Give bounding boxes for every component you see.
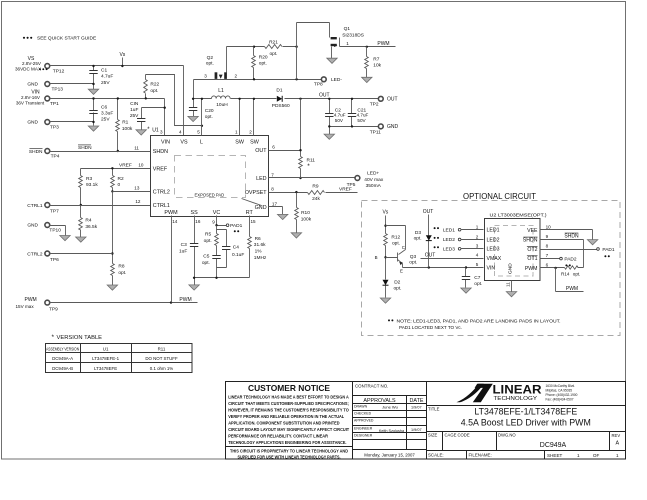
svg-text:14: 14 [172, 219, 178, 224]
svg-text:OVPSET: OVPSET [245, 190, 268, 196]
svg-text:opt.: opt. [150, 88, 158, 94]
svg-text:R2: R2 [118, 176, 124, 182]
svg-text:SHDN: SHDN [523, 238, 538, 244]
svg-text:D2: D2 [394, 279, 400, 285]
svg-text:R6: R6 [255, 236, 261, 242]
svg-text:PAD1: PAD1 [602, 247, 615, 253]
svg-text:opt.: opt. [204, 238, 212, 244]
svg-text:Q1: Q1 [344, 26, 351, 32]
svg-text:VERIFY PROPER AND RELIABLE OPE: VERIFY PROPER AND RELIABLE OPERATION IN … [228, 414, 344, 419]
svg-text:L: L [200, 140, 203, 146]
svg-text:VIN: VIN [161, 140, 170, 146]
svg-text:FILENAME:: FILENAME: [469, 453, 492, 458]
svg-text:Vs: Vs [382, 210, 388, 216]
svg-text:LINEAR: LINEAR [493, 385, 543, 397]
svg-text:TP7: TP7 [50, 209, 59, 215]
svg-text:50V: 50V [335, 118, 344, 123]
svg-text:TP6: TP6 [50, 257, 59, 263]
svg-text:DESIGNER: DESIGNER [354, 434, 373, 438]
svg-text:opt.: opt. [206, 61, 214, 67]
svg-text:C20: C20 [205, 108, 214, 114]
svg-text:C7: C7 [474, 275, 480, 281]
svg-text:VREF: VREF [119, 162, 132, 168]
svg-text:LT3478EFE-1: LT3478EFE-1 [92, 356, 120, 361]
svg-text:LT3478EFE-1/LT3478EFE: LT3478EFE-1/LT3478EFE [474, 407, 577, 417]
svg-text:PWM: PWM [164, 210, 178, 216]
svg-text:6: 6 [272, 144, 275, 149]
svg-text:1: 1 [235, 129, 238, 134]
svg-text:D1: D1 [276, 88, 282, 94]
svg-text:1: 1 [577, 453, 580, 458]
svg-text:1630 McCarthy Blvd.: 1630 McCarthy Blvd. [546, 384, 576, 388]
svg-text:36.5k: 36.5k [85, 224, 97, 230]
svg-text:OT2: OT2 [527, 247, 537, 253]
svg-text:7: 7 [271, 172, 274, 177]
svg-text:TP10: TP10 [49, 227, 61, 233]
svg-text:PAD1: PAD1 [230, 223, 243, 229]
svg-text:APPLICATION. COMPONENT SUBSTI: APPLICATION. COMPONENT SUBSTITUTION AND … [228, 421, 339, 426]
svg-text:L1: L1 [218, 88, 224, 94]
svg-text:R20: R20 [259, 54, 268, 60]
svg-text:CTRL1: CTRL1 [153, 203, 170, 209]
svg-text:SEE QUICK START GUIDE: SEE QUICK START GUIDE [37, 36, 96, 42]
svg-text:7: 7 [546, 253, 549, 258]
svg-text:DATE: DATE [410, 398, 424, 404]
svg-text:ENGINEER: ENGINEER [354, 427, 373, 431]
svg-text:31.6k: 31.6k [254, 242, 266, 248]
svg-text:1uF: 1uF [179, 248, 187, 254]
svg-text:TP12: TP12 [53, 69, 65, 75]
svg-text:CTRL2: CTRL2 [153, 190, 170, 196]
svg-text:D3: D3 [415, 230, 421, 236]
svg-text:2: 2 [235, 74, 238, 79]
svg-text:OT1: OT1 [527, 256, 537, 262]
svg-text:opt.: opt. [409, 260, 417, 266]
svg-text:OF: OF [593, 453, 600, 458]
svg-text:TP4: TP4 [51, 154, 60, 160]
svg-text:50V: 50V [357, 118, 366, 123]
svg-text:SUPPLIED FOR USE WITH LINEAR T: SUPPLIED FOR USE WITH LINEAR TECHNOLOGY … [238, 454, 341, 459]
svg-text:9: 9 [212, 220, 215, 225]
svg-text:SHDN: SHDN [29, 149, 43, 155]
svg-text:25V: 25V [101, 80, 110, 86]
svg-text:Q3: Q3 [410, 254, 417, 260]
svg-text:LED1: LED1 [487, 228, 500, 234]
svg-text:PDS560: PDS560 [272, 103, 290, 109]
svg-text:1: 1 [476, 225, 479, 230]
svg-text:LED3: LED3 [443, 246, 455, 252]
svg-text:opt.: opt. [394, 285, 402, 291]
svg-text:APPROVED: APPROVED [354, 419, 374, 423]
svg-text:OUT: OUT [255, 148, 267, 154]
svg-text:VEE: VEE [527, 228, 538, 234]
svg-text:DC949A: DC949A [540, 442, 567, 449]
svg-text:13: 13 [134, 186, 140, 191]
svg-text:PWM: PWM [179, 297, 191, 303]
svg-text:40V max: 40V max [364, 177, 384, 183]
svg-text:PWM: PWM [377, 41, 389, 47]
svg-text:11: 11 [506, 282, 511, 287]
svg-text:TECHNOLOGY APPLICATIONS ENGINE: TECHNOLOGY APPLICATIONS ENGINEERING FOR … [228, 440, 346, 445]
svg-text:C6: C6 [101, 104, 107, 110]
svg-text:Q2: Q2 [207, 55, 214, 61]
svg-text:GND: GND [27, 82, 38, 88]
svg-text:THIS CIRCUIT IS PROPRIETARY TO: THIS CIRCUIT IS PROPRIETARY TO LINEAR TE… [230, 449, 348, 454]
svg-text:TP3: TP3 [50, 125, 59, 131]
svg-text:Fax: (408)434-0507: Fax: (408)434-0507 [546, 397, 574, 401]
svg-text:R4: R4 [85, 218, 91, 224]
svg-text:TP9: TP9 [49, 306, 58, 312]
svg-text:GND: GND [508, 263, 514, 274]
svg-text:DRAWN: DRAWN [354, 404, 368, 408]
svg-text:R22: R22 [150, 82, 159, 88]
svg-text:LED3: LED3 [487, 247, 500, 253]
svg-text:1: 1 [346, 41, 349, 46]
svg-text:SHDN: SHDN [564, 233, 579, 239]
svg-text:HOWEVER, IT REMAINS THE CUSTOM: HOWEVER, IT REMAINS THE CUSTOMER'S RESPO… [228, 407, 349, 412]
svg-text:C5: C5 [203, 254, 209, 260]
svg-text:1%: 1% [255, 249, 263, 255]
svg-text:SIZE: SIZE [428, 432, 438, 437]
svg-text:VREF: VREF [153, 166, 168, 172]
svg-text:DWG.NO: DWG.NO [498, 432, 516, 437]
svg-text:TP13: TP13 [52, 87, 64, 93]
svg-text:15: 15 [251, 219, 257, 224]
svg-text:25V: 25V [130, 113, 139, 119]
svg-text:R11: R11 [158, 346, 166, 351]
svg-text:PWM: PWM [566, 286, 578, 292]
svg-text:93.1k: 93.1k [86, 182, 98, 188]
svg-text:PAD1 LOCATED NEXT TO Vc.: PAD1 LOCATED NEXT TO Vc. [399, 325, 462, 331]
svg-text:10k: 10k [373, 63, 381, 69]
svg-text:CTRL1: CTRL1 [27, 203, 43, 209]
svg-text:1/9/07: 1/9/07 [411, 428, 422, 432]
svg-text:SHDN: SHDN [153, 149, 168, 155]
svg-text:RT: RT [246, 210, 254, 216]
svg-text:REV: REV [612, 433, 621, 438]
svg-text:LED-: LED- [331, 77, 342, 83]
svg-text:VC: VC [213, 210, 221, 216]
svg-text:LED2: LED2 [487, 237, 500, 243]
svg-text:R5: R5 [205, 232, 211, 238]
svg-text:GND: GND [255, 205, 267, 211]
svg-text:25V: 25V [101, 117, 110, 123]
svg-text:VMAX: VMAX [487, 256, 502, 262]
svg-text:1: 1 [616, 453, 619, 458]
svg-text:1uF: 1uF [130, 107, 138, 113]
svg-text:OUT: OUT [423, 209, 434, 215]
svg-text:June Wu: June Wu [382, 405, 398, 410]
svg-text:10uH: 10uH [216, 102, 228, 108]
svg-text:4.7uF: 4.7uF [357, 113, 369, 118]
svg-text:5: 5 [197, 129, 200, 134]
svg-text:8: 8 [271, 186, 274, 191]
svg-text:1MHz: 1MHz [254, 255, 267, 261]
svg-text:U1: U1 [103, 346, 109, 351]
svg-text:E: E [400, 269, 403, 274]
svg-text:2.8V-25V: 2.8V-25V [22, 61, 42, 66]
svg-text:SHEET: SHEET [547, 453, 563, 458]
svg-text:TP8: TP8 [314, 81, 323, 87]
svg-text:GND: GND [27, 223, 38, 229]
svg-text:4: 4 [179, 129, 182, 134]
svg-text:Milpitas, CA 95035: Milpitas, CA 95035 [546, 388, 573, 392]
svg-text:SS: SS [190, 210, 198, 216]
svg-text:24k: 24k [312, 196, 320, 202]
svg-text:DO NOT STUFF: DO NOT STUFF [145, 356, 178, 361]
svg-text:2: 2 [476, 234, 479, 239]
svg-text:1/9/07: 1/9/07 [411, 406, 422, 410]
svg-text:VERSION TABLE: VERSION TABLE [57, 335, 103, 341]
svg-text:3.3uF: 3.3uF [101, 111, 113, 117]
svg-text:OUT: OUT [319, 93, 330, 99]
svg-text:R14: R14 [561, 271, 570, 276]
svg-text:0: 0 [118, 182, 121, 188]
svg-text:LED2: LED2 [443, 237, 455, 243]
svg-text:CIN: CIN [130, 101, 139, 107]
svg-text:SCALE:: SCALE: [428, 453, 444, 458]
svg-text:CIRCUIT BOARD LAYOUT MAY SIGNI: CIRCUIT BOARD LAYOUT MAY SIGNIFICANTLY A… [228, 427, 349, 432]
svg-text:SW: SW [250, 140, 260, 146]
svg-text:PWM: PWM [25, 297, 37, 303]
svg-text:LINEAR TECHNOLOGY HAS MADE A B: LINEAR TECHNOLOGY HAS MADE A BEST EFFORT… [228, 394, 349, 399]
svg-text:APPROVALS: APPROVALS [363, 398, 396, 404]
svg-text:OPTIONAL CIRCUIT: OPTIONAL CIRCUIT [463, 192, 536, 201]
svg-text:Vs: Vs [119, 52, 125, 58]
svg-text:CHECKED: CHECKED [354, 412, 372, 416]
svg-text:A: A [615, 441, 619, 447]
svg-text:LED1: LED1 [443, 227, 455, 233]
svg-text:Keith Szolusha: Keith Szolusha [379, 429, 405, 433]
svg-text:TITLE: TITLE [428, 407, 440, 412]
svg-text:DC949A-B: DC949A-B [52, 366, 73, 371]
svg-text:VREF: VREF [339, 186, 352, 192]
svg-text:EXPOSED PAD: EXPOSED PAD [195, 193, 225, 198]
svg-text:LED+: LED+ [367, 171, 379, 177]
svg-text:R10: R10 [301, 210, 310, 216]
svg-text:2: 2 [249, 129, 252, 134]
svg-text:B: B [375, 255, 378, 260]
svg-text:10: 10 [546, 224, 552, 229]
svg-text:R9: R9 [312, 183, 318, 189]
svg-text:36V Transient: 36V Transient [16, 100, 45, 105]
svg-text:11: 11 [134, 145, 139, 150]
svg-text:U1: U1 [152, 128, 159, 134]
svg-text:3: 3 [204, 74, 207, 79]
svg-text:15V max: 15V max [16, 304, 35, 309]
svg-text:100k: 100k [122, 126, 133, 132]
svg-text:SW: SW [235, 140, 245, 146]
svg-text:LED: LED [256, 176, 267, 182]
svg-text:VIN: VIN [487, 265, 496, 271]
svg-text:4.5A Boost LED Driver with PWM: 4.5A Boost LED Driver with PWM [461, 418, 591, 428]
svg-text:350mA: 350mA [366, 183, 382, 189]
svg-text:OUT: OUT [425, 252, 436, 258]
svg-text:TECHNOLOGY: TECHNOLOGY [494, 396, 538, 402]
svg-text:SHDN: SHDN [78, 145, 92, 151]
svg-text:PERFORMANCE OR RELIABILITY. C: PERFORMANCE OR RELIABILITY. CONTACT LINE… [228, 434, 329, 439]
svg-text:6: 6 [546, 262, 549, 267]
svg-text:TP1: TP1 [50, 101, 59, 107]
svg-text:opt.: opt. [205, 114, 213, 120]
svg-text:opt.: opt. [202, 260, 210, 266]
svg-text:4.7uF: 4.7uF [334, 113, 346, 118]
svg-text:VS: VS [180, 140, 188, 146]
svg-text:TP11: TP11 [370, 129, 381, 135]
svg-text:opt.: opt. [474, 281, 482, 287]
svg-text:16: 16 [195, 219, 201, 224]
svg-text:3: 3 [476, 244, 479, 249]
svg-text:ASSEMBLY VERSION: ASSEMBLY VERSION [46, 346, 79, 351]
svg-text:3: 3 [160, 129, 163, 134]
svg-text:CIRCUIT THAT MEETS CUSTOMER-SU: CIRCUIT THAT MEETS CUSTOMER-SUPPLIED SPE… [228, 401, 349, 406]
svg-text:4: 4 [476, 253, 479, 258]
svg-text:Si2318DS: Si2318DS [342, 33, 364, 39]
svg-text:9: 9 [546, 234, 549, 239]
svg-text:NOTE: LED1-LED3, PAD1, AND PAD: NOTE: LED1-LED3, PAD1, AND PAD2 ARE LAND… [397, 318, 561, 324]
svg-text:100k: 100k [301, 216, 312, 222]
svg-text:Monday, January 15, 2007: Monday, January 15, 2007 [364, 452, 415, 457]
svg-text:C3: C3 [181, 242, 187, 248]
svg-text:4.7uF: 4.7uF [101, 74, 113, 80]
svg-text:CAGE CODE: CAGE CODE [445, 432, 470, 437]
svg-text:12: 12 [135, 199, 141, 204]
svg-text:GND: GND [387, 124, 399, 130]
svg-text:R12: R12 [391, 234, 400, 240]
svg-text:CONTRACT NO.: CONTRACT NO. [355, 384, 388, 389]
svg-text:CUSTOMER NOTICE: CUSTOMER NOTICE [248, 384, 331, 393]
svg-text:opt.: opt. [392, 241, 400, 247]
svg-text:Phone: (408)432-1900: Phone: (408)432-1900 [546, 393, 578, 397]
svg-text:C1: C1 [101, 68, 107, 74]
svg-text:U2 LT3003EMSE(OPT.): U2 LT3003EMSE(OPT.) [490, 213, 547, 219]
svg-text:R8: R8 [118, 264, 124, 270]
svg-text:R3: R3 [86, 176, 92, 182]
svg-text:TP2: TP2 [370, 102, 379, 108]
svg-text:LT3478EFE: LT3478EFE [94, 366, 117, 371]
svg-text:opt.: opt. [259, 61, 267, 67]
svg-text:OUT: OUT [387, 97, 398, 103]
svg-text:DC949A-A: DC949A-A [52, 356, 73, 361]
svg-text:PWM: PWM [525, 266, 538, 272]
svg-text:GND: GND [27, 120, 38, 126]
svg-text:0.1uF: 0.1uF [232, 252, 244, 258]
svg-text:R21: R21 [269, 39, 278, 45]
svg-text:opt.: opt. [269, 51, 277, 57]
svg-text:opt.: opt. [414, 235, 422, 241]
svg-text:opt.: opt. [573, 271, 581, 276]
svg-text:5: 5 [476, 262, 479, 267]
svg-text:36VDC MAX: 36VDC MAX [15, 67, 41, 72]
svg-text:opt.: opt. [118, 270, 126, 276]
svg-text:R1: R1 [122, 120, 128, 126]
svg-text:C: C [402, 245, 405, 250]
svg-text:PAD2: PAD2 [564, 256, 577, 262]
svg-text:R7: R7 [373, 56, 379, 62]
svg-text:10: 10 [138, 163, 144, 168]
svg-text:0.1 ohm 1%: 0.1 ohm 1% [150, 366, 174, 371]
svg-text:CTRL2: CTRL2 [27, 251, 43, 257]
svg-text:17: 17 [272, 202, 278, 207]
svg-text:C4: C4 [233, 245, 239, 251]
svg-text:8: 8 [546, 243, 549, 248]
